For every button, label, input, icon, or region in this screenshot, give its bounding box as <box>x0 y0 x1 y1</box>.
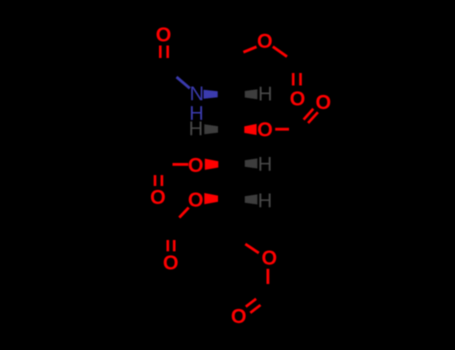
C3 acetate C=O double bond <box>304 109 314 120</box>
C4 acetate C=O double bond <box>154 175 157 186</box>
carbonyl O of C6 acetate <box>232 309 246 323</box>
H on C3 <box>190 122 201 136</box>
bond C(=O)-N (blue half) <box>177 77 190 88</box>
ester O on C4 <box>189 158 203 172</box>
bond C1-O (red half) <box>243 47 256 52</box>
bond O-C(=O) of C4 acetate (red half) <box>173 163 189 166</box>
C6 acetate C=O double bond <box>246 299 256 307</box>
wedge C2-N (blue visible half) <box>204 90 218 99</box>
N of acetamido <box>191 86 202 100</box>
acetamido carbonyl O (C=O of NHAc) <box>157 27 171 41</box>
H on C4 <box>259 157 270 171</box>
C5 acetate C=O double bond <box>167 240 170 251</box>
ester O of C1 acetate <box>258 34 272 48</box>
wedge C3-O (red visible half) <box>244 124 256 135</box>
bond O-C(=O) of C3 acetate (red half) <box>275 128 289 131</box>
wedge C4-O (red visible half) <box>205 159 219 170</box>
ester O on C3 <box>258 122 272 136</box>
acetamido C=O double bond <box>159 46 162 59</box>
wedge C3-H (gray visible half) <box>204 124 218 134</box>
H on C5 <box>259 194 270 208</box>
wedge C5-H (gray visible half) <box>245 194 258 204</box>
ester O of C6 acetate <box>262 251 276 265</box>
carbonyl O of C3 acetate <box>316 95 330 109</box>
carbonyl O of C4 acetate <box>151 190 165 204</box>
bond O-C(=O) of C6 acetate (red half) <box>266 269 269 284</box>
wedge C5-O (red visible half) <box>204 193 218 204</box>
C1 acetate C=O double bond <box>292 73 295 86</box>
bond O-C(=O) of C5 acetate (red half) <box>179 208 188 218</box>
bond O-C(=O) of C1 acetate (red half) <box>273 47 287 57</box>
wedge C2-H (gray visible half) <box>245 89 258 99</box>
H on C2 <box>260 87 271 101</box>
ester O on C5 <box>189 193 203 207</box>
carbonyl O of C1 acetate <box>291 91 305 105</box>
wedge C4-H (gray visible half) <box>245 158 258 168</box>
H on N <box>191 106 202 120</box>
bond C6-O (red half) <box>245 244 258 253</box>
carbonyl O of C5 acetate <box>164 255 178 269</box>
